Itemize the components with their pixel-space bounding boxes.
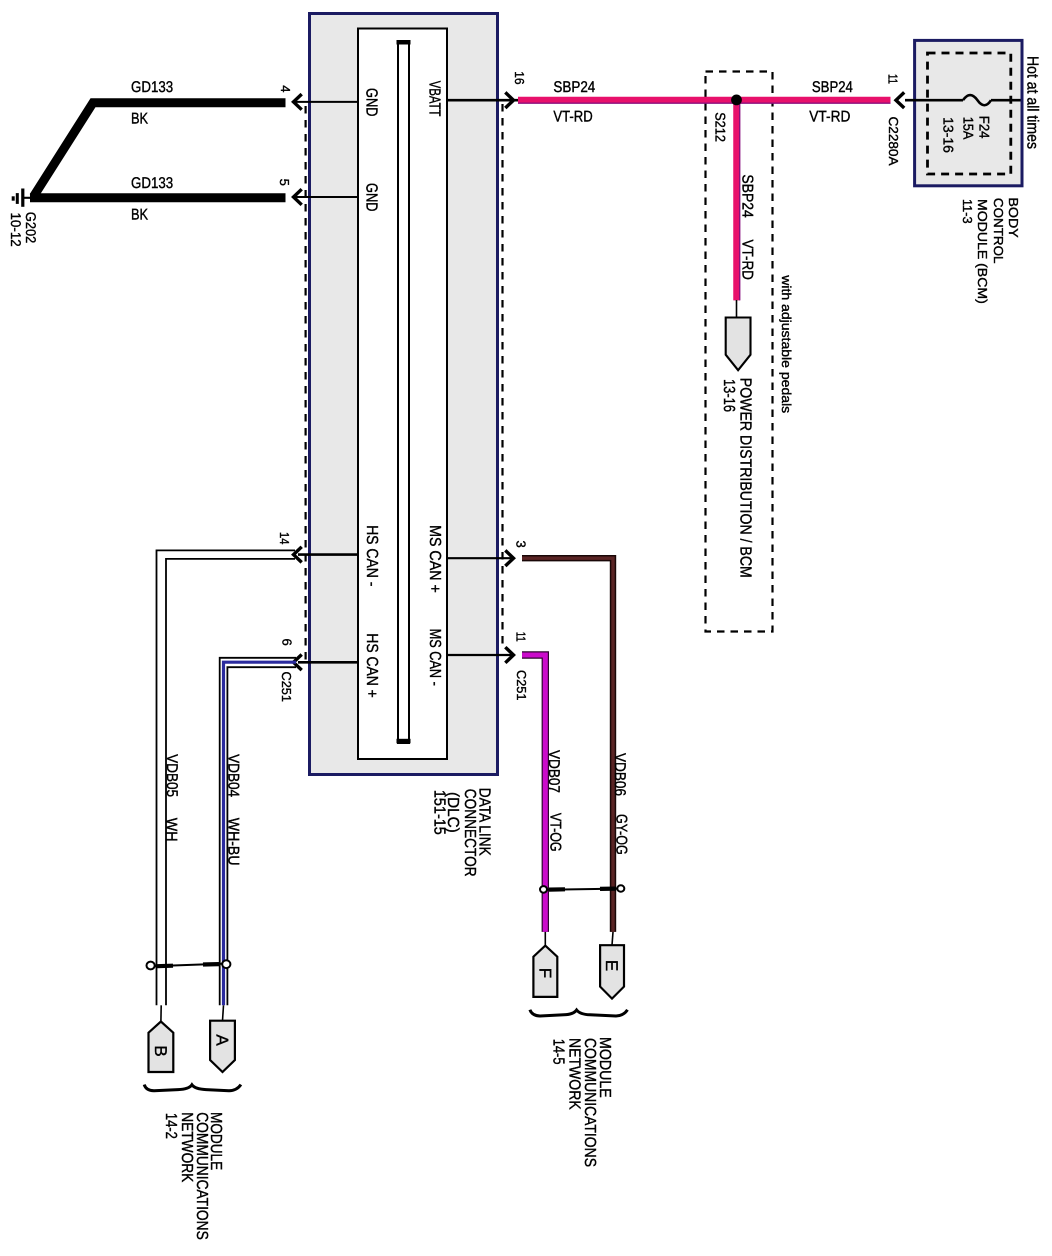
svg-text:4: 4 xyxy=(278,85,293,92)
pin 6 stub xyxy=(298,661,358,664)
svg-text:B: B xyxy=(151,1045,170,1056)
BCM fuse dashed box xyxy=(928,53,1011,174)
svg-text:E: E xyxy=(602,960,621,971)
fuse F24 symbol xyxy=(963,95,991,105)
wire VDB05 WH inner xyxy=(166,559,295,1005)
svg-text:VT-RD: VT-RD xyxy=(809,109,850,126)
svg-text:NETWORK: NETWORK xyxy=(178,1112,195,1182)
svg-text:BK: BK xyxy=(131,110,149,127)
connector dashed boundary right xyxy=(501,104,503,648)
splice S212 xyxy=(731,95,742,106)
svg-text:G202: G202 xyxy=(23,212,39,244)
svg-text:SBP24: SBP24 xyxy=(739,174,756,218)
svg-text:VDB05: VDB05 xyxy=(163,754,180,797)
svg-text:C251: C251 xyxy=(514,670,529,701)
svg-text:GD133: GD133 xyxy=(131,175,173,192)
wire VDB04 WH-BU blue stripe xyxy=(224,662,297,1005)
svg-text:15A: 15A xyxy=(960,117,976,140)
svg-text:GD133: GD133 xyxy=(131,79,173,96)
svg-text:POWER DISTRIBUTION / BCM: POWER DISTRIBUTION / BCM xyxy=(737,378,754,578)
connector C251 dashed boundary left xyxy=(305,106,307,660)
BCM pin 11 arrow xyxy=(896,92,904,108)
svg-text:13-16: 13-16 xyxy=(720,379,737,412)
svg-text:S212: S212 xyxy=(712,112,728,142)
pin 4 arrow xyxy=(294,94,302,110)
svg-text:SBP24: SBP24 xyxy=(812,79,853,96)
pin 16 stub xyxy=(447,99,521,102)
body control module box xyxy=(915,40,1022,185)
svg-text:HS CAN -: HS CAN - xyxy=(363,525,380,586)
svg-text:CONNECTOR: CONNECTOR xyxy=(461,789,478,877)
pin 11 arrow xyxy=(505,647,513,663)
svg-text:with adjustable pedals: with adjustable pedals xyxy=(779,274,794,414)
svg-text:14-5: 14-5 xyxy=(550,1039,567,1065)
svg-text:C2280A: C2280A xyxy=(886,117,901,166)
wire VDB07 VT-OG xyxy=(522,655,545,932)
svg-text:A: A xyxy=(213,1034,232,1046)
svg-text:VBATT: VBATT xyxy=(426,81,443,117)
off-page arrow POWER DISTRIBUTION xyxy=(726,318,751,371)
svg-text:11: 11 xyxy=(885,74,900,84)
svg-text:16: 16 xyxy=(512,71,527,84)
svg-text:GND: GND xyxy=(363,88,380,117)
svg-text:11: 11 xyxy=(514,632,529,642)
svg-text:14: 14 xyxy=(277,532,292,544)
svg-text:Hot at all times: Hot at all times xyxy=(1023,56,1040,149)
svg-text:GY-OG: GY-OG xyxy=(613,814,630,855)
svg-text:GND: GND xyxy=(363,183,380,212)
svg-text:F: F xyxy=(536,968,555,978)
ground G202 xyxy=(24,197,32,199)
pin 6 arrow xyxy=(294,655,302,671)
svg-text:5: 5 xyxy=(277,179,292,186)
svg-text:MS CAN +: MS CAN + xyxy=(426,525,443,593)
twisted pair symbol B/A xyxy=(152,964,225,967)
brace F/E xyxy=(530,1010,628,1016)
svg-text:MODULE (BCM): MODULE (BCM) xyxy=(975,199,990,304)
svg-text:COMMUNICATIONS: COMMUNICATIONS xyxy=(581,1038,598,1167)
wire SBP24 VT-RD horizontal xyxy=(518,97,891,104)
svg-text:VT-RD: VT-RD xyxy=(553,109,592,126)
BCM wire xyxy=(905,99,963,102)
pin 3 arrow xyxy=(505,550,513,566)
svg-text:6: 6 xyxy=(280,639,295,646)
wire VDB04 WH-BU outer xyxy=(220,658,296,1006)
svg-text:151-15: 151-15 xyxy=(431,790,448,835)
brace B/A xyxy=(144,1085,241,1091)
connector F xyxy=(533,946,557,997)
svg-text:MODULE: MODULE xyxy=(596,1037,613,1098)
svg-text:14-2: 14-2 xyxy=(162,1113,179,1139)
pin 14 stub xyxy=(298,553,358,556)
pin 4 stub xyxy=(294,101,358,103)
svg-text:BK: BK xyxy=(131,207,149,224)
connector B xyxy=(149,1022,174,1073)
wire GD133 BK lower (pin 5) xyxy=(30,193,286,202)
svg-text:F24: F24 xyxy=(977,116,993,139)
svg-text:WH-BU: WH-BU xyxy=(224,818,241,866)
pin 3 stub xyxy=(447,557,515,559)
pin 11 stub xyxy=(447,654,515,656)
connector E xyxy=(600,945,624,998)
lead to off-page arrow xyxy=(736,300,738,318)
svg-text:MS CAN -: MS CAN - xyxy=(426,629,443,686)
wire VDB04 WH-BU inner xyxy=(227,667,296,1005)
svg-text:NETWORK: NETWORK xyxy=(565,1038,582,1110)
svg-text:VDB06: VDB06 xyxy=(611,753,628,796)
svg-text:3: 3 xyxy=(514,541,529,548)
dashed option box: with adjustable pedals xyxy=(706,72,773,632)
svg-text:SBP24: SBP24 xyxy=(553,79,595,96)
DLC key bar xyxy=(398,41,409,743)
wire VDB05 WH outer xyxy=(157,550,296,1005)
wire GD133 BK upper (pin 4) xyxy=(34,103,286,197)
connector A xyxy=(210,1021,235,1072)
svg-text:WH: WH xyxy=(162,818,179,842)
svg-text:VT-OG: VT-OG xyxy=(547,813,564,852)
pin 5 arrow xyxy=(294,189,302,205)
svg-text:BODY: BODY xyxy=(1006,197,1021,238)
svg-text:13-16: 13-16 xyxy=(940,117,956,153)
svg-text:11-3: 11-3 xyxy=(960,199,975,224)
DLC inner connector body xyxy=(358,29,447,760)
svg-text:10-12: 10-12 xyxy=(8,213,24,247)
svg-text:CONTROL: CONTROL xyxy=(991,198,1006,264)
svg-text:VDB07: VDB07 xyxy=(545,750,562,793)
svg-text:C251: C251 xyxy=(279,672,294,703)
data link connector DLC box xyxy=(310,14,498,775)
wire SBP24 VT-RD vertical xyxy=(733,100,740,300)
svg-text:VDB04: VDB04 xyxy=(224,754,241,797)
pin 16 arrow xyxy=(505,92,513,108)
pin 5 stub xyxy=(294,196,358,198)
svg-text:HS CAN +: HS CAN + xyxy=(363,633,380,698)
twisted pair symbol F/E xyxy=(546,889,619,890)
wire VDB06 GY-OG xyxy=(522,558,613,932)
pin 14 arrow xyxy=(294,547,302,563)
svg-text:VT-RD: VT-RD xyxy=(739,240,756,280)
